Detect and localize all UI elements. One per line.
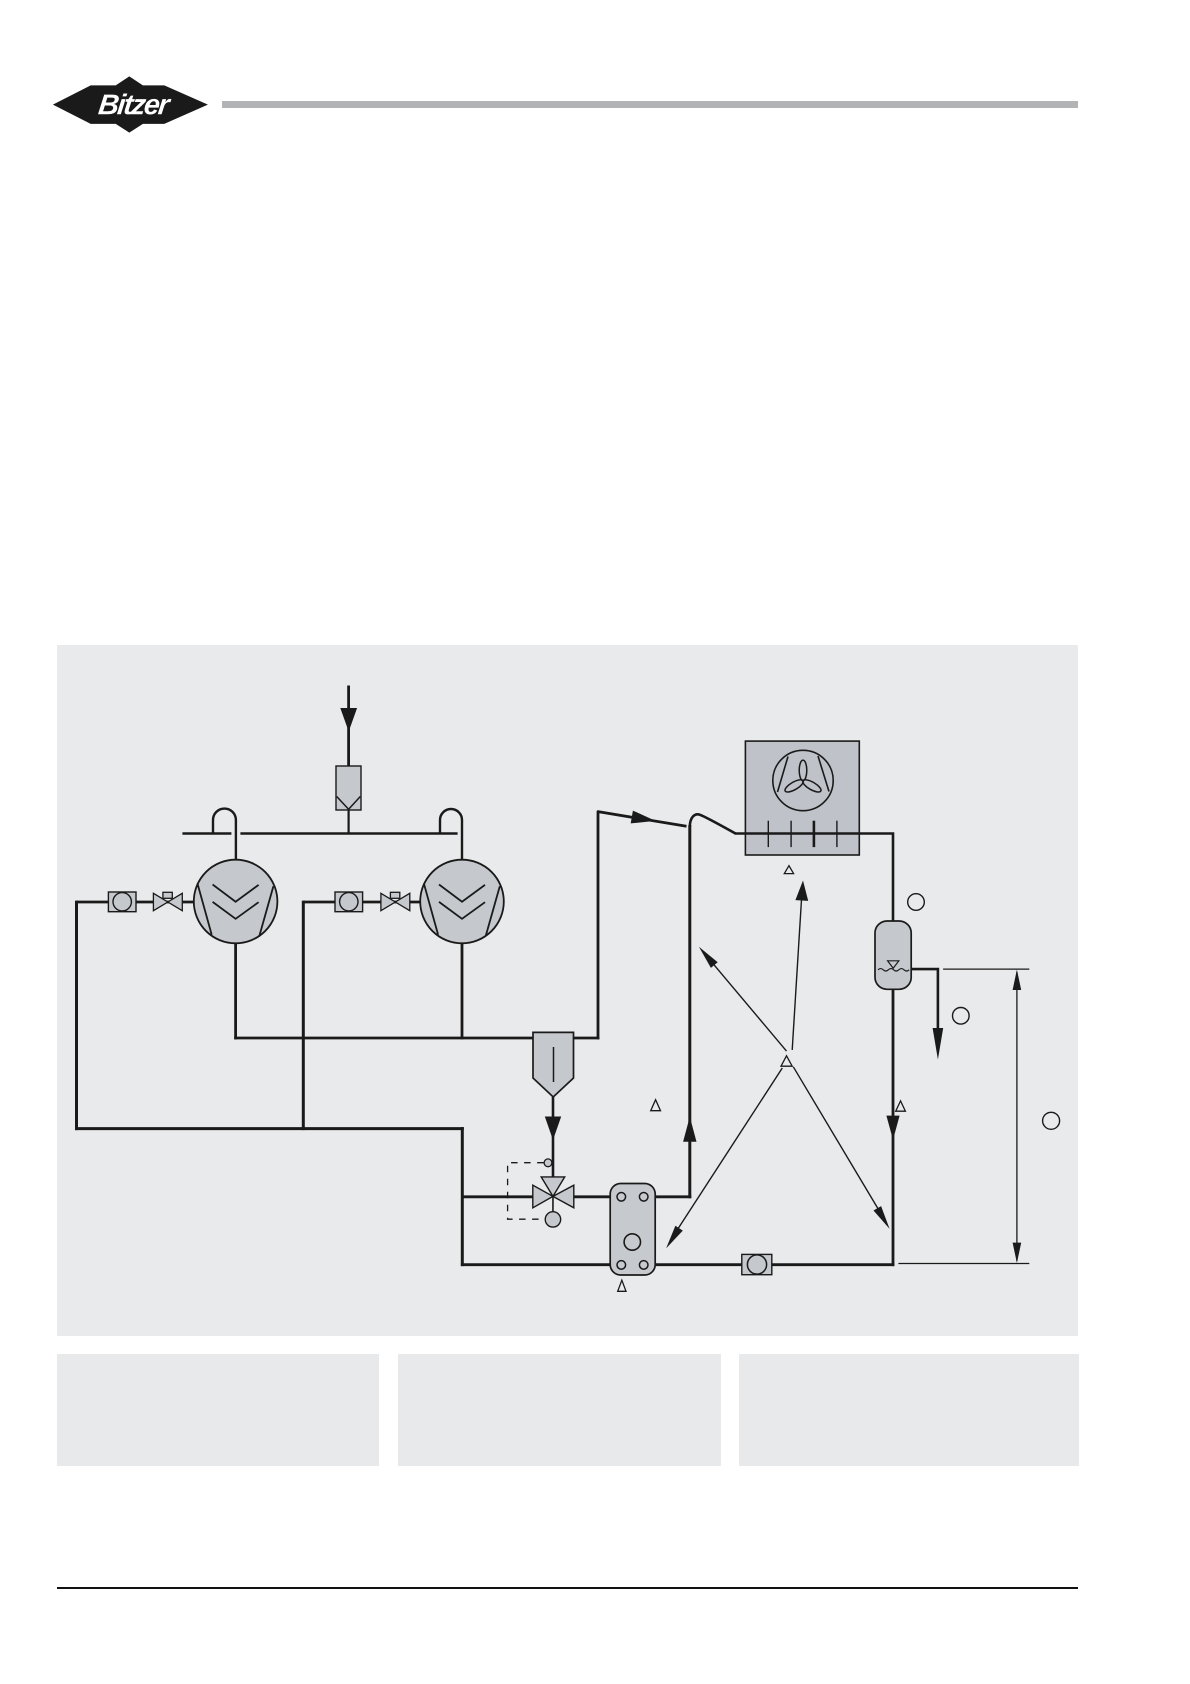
dimension reference line bottom bbox=[898, 1263, 1029, 1265]
wire muffler to suction header bbox=[348, 809, 350, 835]
wire drop to valve level bbox=[461, 1127, 464, 1266]
wire evaporator top row left segment bbox=[574, 1195, 617, 1198]
dimension reference line top bbox=[943, 968, 1029, 970]
wire suction riser 2 bbox=[302, 901, 305, 1131]
wire discharge header to drier bbox=[234, 1037, 533, 1040]
schematic svg bbox=[57, 645, 1078, 1336]
shut-off valve 1 bbox=[153, 892, 182, 910]
measuring arrow down-left bbox=[666, 1068, 782, 1248]
arrow up on hot gas riser bbox=[683, 1117, 696, 1142]
arrow to condenser bbox=[631, 811, 656, 824]
Bitzer logo bbox=[52, 75, 209, 134]
delta label center bbox=[781, 1056, 792, 1066]
shut-off valve 2 bbox=[381, 892, 410, 910]
wire liquid bottom right segment bbox=[648, 1263, 895, 1266]
wire through condenser bbox=[735, 834, 894, 922]
delta label condenser bbox=[784, 866, 793, 874]
wire valve feed horizontal bbox=[462, 1195, 533, 1198]
wire evaporator top row right segment bbox=[648, 1195, 691, 1198]
legend box 2 bbox=[398, 1354, 721, 1466]
sensor circle right bbox=[1043, 1112, 1060, 1129]
sight glass 1 bbox=[108, 892, 136, 912]
plate heat exchanger bbox=[610, 1184, 655, 1276]
wire hot gas riser to evaporator bbox=[688, 825, 691, 1198]
filter drier bbox=[533, 1032, 574, 1097]
measuring arrow down-right bbox=[793, 1067, 889, 1229]
suction manifold bbox=[182, 832, 457, 834]
suction loop compressor 2 bbox=[440, 809, 462, 862]
wire receiver down line bbox=[892, 989, 895, 1266]
wire liquid bottom left segment bbox=[461, 1263, 617, 1266]
wire inlet top with arrow bbox=[340, 686, 357, 767]
condenser fan bbox=[773, 750, 833, 810]
compressor 1 bbox=[194, 860, 278, 944]
arrow down on receiver line bbox=[886, 1116, 899, 1140]
three way valve bbox=[533, 1177, 574, 1227]
measuring arrow up-left bbox=[699, 947, 787, 1051]
condenser fins bbox=[768, 821, 837, 847]
delta label evaporator bbox=[618, 1280, 626, 1291]
sight glass liquid line bbox=[742, 1254, 772, 1274]
legend box 3 bbox=[739, 1354, 1079, 1466]
receiver outlet line with down arrow bbox=[911, 969, 943, 1059]
suction loop compressor 1 bbox=[213, 809, 236, 862]
wire discharge drop compressor 2 bbox=[461, 943, 464, 1040]
wire drier to expansion valve with arrow bbox=[545, 1097, 561, 1178]
wire suction line compressor 2 bbox=[303, 901, 421, 904]
condenser unit bbox=[745, 741, 859, 855]
measuring arrow up bbox=[792, 881, 808, 1050]
dimension double arrow bbox=[1013, 970, 1022, 1263]
capillary circle on valve stem bbox=[544, 1159, 552, 1167]
check valve muffler bbox=[336, 766, 361, 810]
wire suction riser left bbox=[75, 901, 78, 1131]
sight glass 2 bbox=[335, 892, 363, 912]
sensor circle at receiver inlet bbox=[908, 894, 925, 911]
diagram panel background bbox=[57, 645, 1078, 1336]
dashed capillary box bbox=[508, 1163, 545, 1220]
footer rule bbox=[57, 1587, 1078, 1589]
compressor 2 bbox=[420, 860, 504, 944]
wire suction line compressor 1 bbox=[77, 901, 195, 904]
wire suction header horizontal bbox=[75, 1127, 464, 1130]
legend box 1 bbox=[57, 1354, 379, 1466]
delta label riser bbox=[651, 1100, 661, 1111]
delta label receiver line bbox=[896, 1101, 906, 1111]
receiver bbox=[875, 921, 911, 989]
wire condenser riser bbox=[598, 812, 687, 1040]
sensor circle at outlet bbox=[953, 1008, 970, 1025]
header rule gray bar bbox=[222, 101, 1078, 108]
wire discharge drop compressor 1 bbox=[234, 943, 237, 1040]
wire drier to condenser riser bbox=[574, 1037, 600, 1040]
wire condenser trap loop bbox=[690, 814, 736, 833]
